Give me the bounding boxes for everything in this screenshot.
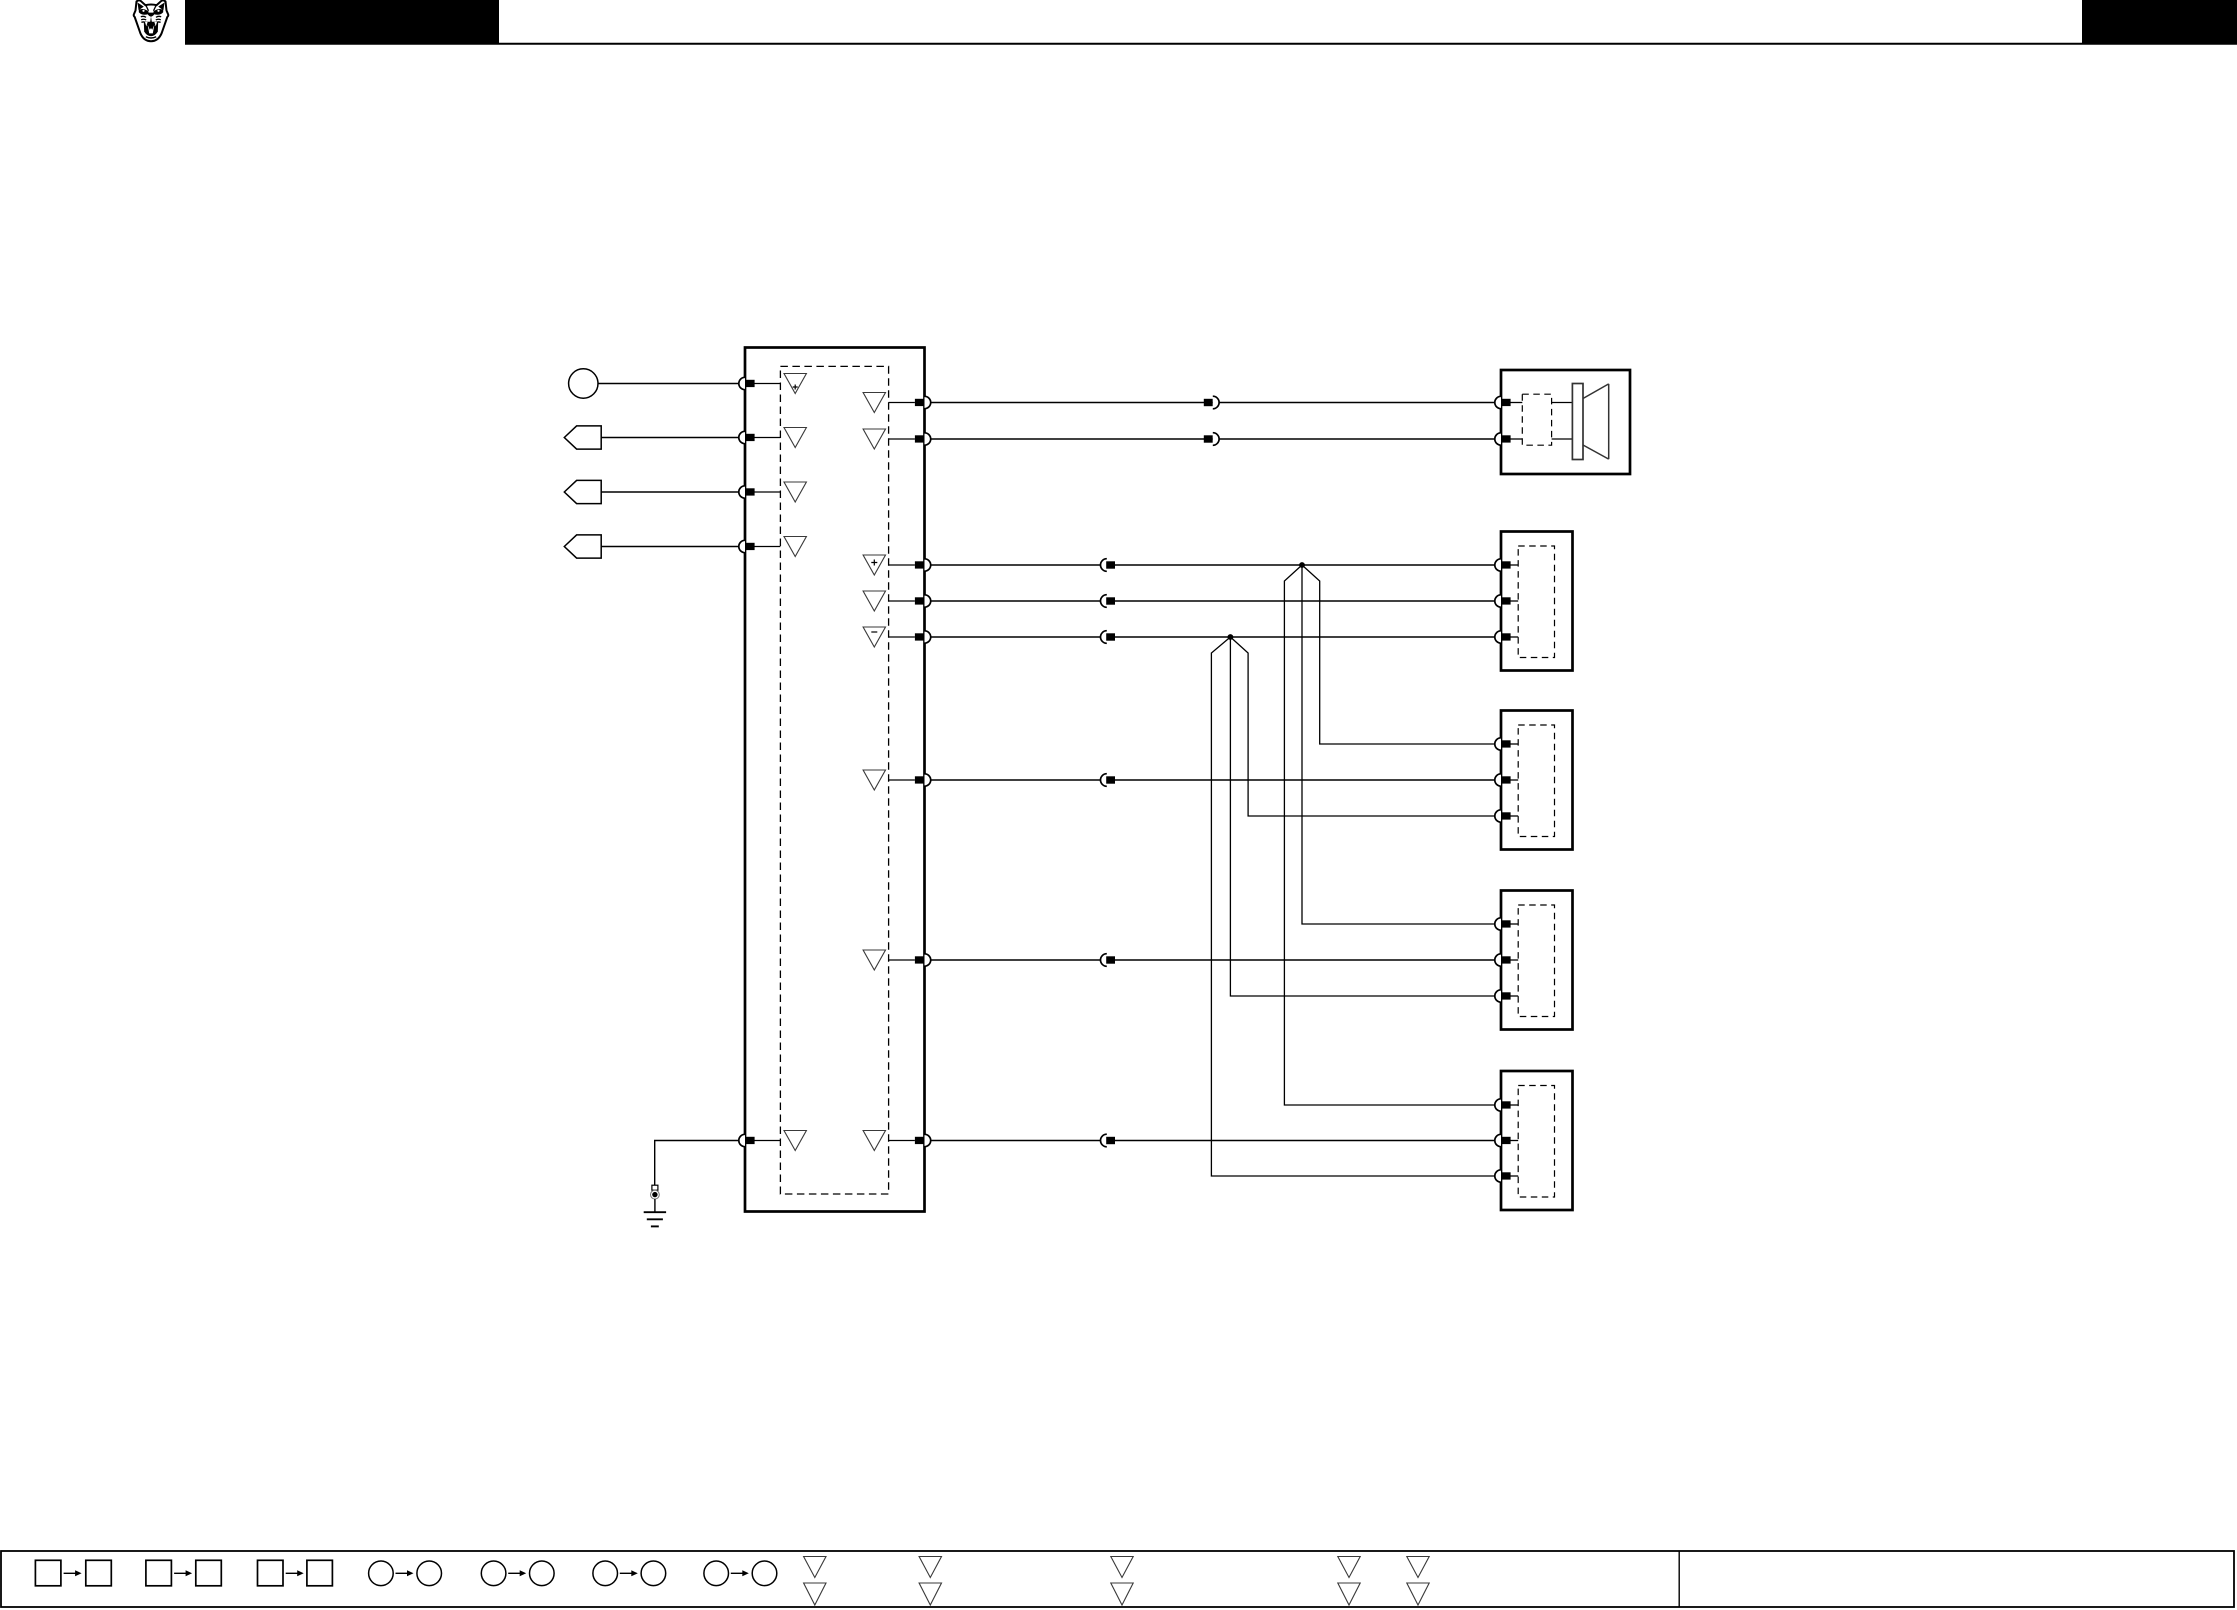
door speaker connector box 3 bbox=[1501, 711, 1573, 850]
wire: input 3 to amp bbox=[601, 491, 739, 493]
ground ring terminal bbox=[651, 1190, 660, 1199]
amplifier module outline bbox=[745, 348, 925, 1212]
in-line connector bbox=[1101, 631, 1116, 644]
wire: input 2 to amp bbox=[601, 437, 739, 439]
wire: out4 bbox=[931, 1140, 1495, 1142]
legend: connector pair 5 (circles) bbox=[481, 1561, 554, 1586]
in-line connector bbox=[1101, 954, 1116, 967]
amp pin (right) out3 bbox=[863, 950, 931, 970]
amp pin (right) speaker - bbox=[863, 429, 931, 449]
box3 dashed connector bbox=[1518, 725, 1554, 837]
pin stub bbox=[755, 1140, 781, 1142]
input eyelet connector (circle) bbox=[569, 369, 598, 398]
door speaker connector box 2 bbox=[1501, 532, 1573, 671]
ground lead bbox=[654, 1199, 656, 1212]
legend: splice pair 5 (triangles) bbox=[1407, 1557, 1429, 1606]
legend divider bbox=[1678, 1551, 1680, 1607]
input lead connector 4 (pentagon) bbox=[564, 535, 601, 558]
box5 pin3 bbox=[1495, 1170, 1518, 1182]
amplifier internal harness (dashed) bbox=[780, 366, 888, 1194]
legend: connector pair 7 (circles) bbox=[704, 1561, 777, 1586]
wire: J1 branch to box3 pin1 bbox=[1302, 565, 1494, 744]
amp pin (right) out4 bbox=[889, 1134, 931, 1146]
junction J1 bbox=[1299, 562, 1305, 568]
speaker internal wires bbox=[1552, 403, 1573, 440]
amp pin (right) out2 bbox=[863, 770, 931, 790]
legend: connector pair 3 (squares) bbox=[258, 1560, 333, 1586]
splice triangle bbox=[784, 537, 806, 557]
box5 dashed connector bbox=[1518, 1086, 1554, 1198]
speaker pin 1 bbox=[1495, 396, 1523, 408]
in-line connector bbox=[1204, 433, 1219, 446]
pin stub bbox=[755, 546, 781, 548]
legend: connector pair 4 (circles) bbox=[369, 1561, 442, 1586]
box2 pin2 bbox=[1495, 595, 1518, 607]
wire: J2 branch to box3 pin3 bbox=[1230, 637, 1494, 816]
legend: splice pair 4 (triangles) bbox=[1338, 1557, 1360, 1606]
box2 dashed connector bbox=[1518, 546, 1554, 658]
pin stub bbox=[755, 437, 781, 439]
pin stub bbox=[755, 491, 781, 493]
wire: speaker - bbox=[931, 438, 1495, 440]
box3 pin2 bbox=[1495, 774, 1518, 786]
wire: out2 bbox=[931, 779, 1495, 781]
legend: connector pair 1 (squares) bbox=[35, 1560, 111, 1586]
legend: connector pair 6 (circles) bbox=[593, 1561, 666, 1586]
wire: out3 bbox=[931, 959, 1495, 961]
amp pin (right) speaker + bbox=[863, 393, 931, 413]
wire: J1 branch to box5 pin1 bbox=[1284, 565, 1494, 1105]
legend: splice pair 3 (triangles) bbox=[1111, 1557, 1133, 1606]
door speaker connector box 4 bbox=[1501, 891, 1573, 1030]
splice triangle bbox=[784, 482, 806, 502]
box4 pin2 bbox=[1495, 954, 1518, 966]
speaker driver bbox=[1572, 384, 1608, 460]
box5 pin2 bbox=[1495, 1134, 1518, 1146]
wire: J1 branch to box4 pin1 bbox=[1302, 565, 1494, 924]
wire: out1 + bbox=[931, 564, 1495, 566]
box5 pin1 bbox=[1495, 1099, 1518, 1111]
junction J2 bbox=[1228, 634, 1234, 640]
ground eyelet square bbox=[652, 1185, 658, 1190]
amp pin (left) row 2 bbox=[739, 431, 755, 443]
box2 pin3 bbox=[1495, 631, 1518, 643]
in-line connector bbox=[1204, 396, 1219, 409]
speaker connector (dashed) bbox=[1522, 394, 1551, 445]
box2 pin1 bbox=[1495, 559, 1518, 571]
amp pin (left) row 4 bbox=[739, 540, 755, 552]
pin stub bbox=[755, 383, 781, 385]
splice triangle bbox=[784, 428, 806, 448]
wire: J2 branch to box4 pin3 bbox=[1230, 637, 1494, 996]
legend: splice pair 2 (triangles) bbox=[919, 1557, 941, 1606]
amp pin (right) out1 - bbox=[863, 627, 931, 647]
legend: connector pair 2 (squares) bbox=[146, 1560, 221, 1586]
splice triangle bbox=[784, 1131, 806, 1151]
amp pin (right) out1 + bbox=[863, 555, 931, 575]
speaker pin 2 bbox=[1495, 433, 1523, 445]
legend: splice pair 1 (triangles) bbox=[804, 1557, 826, 1606]
amp ground pin (left bottom) bbox=[739, 1134, 755, 1146]
wire: input 1 to amp bbox=[598, 383, 739, 385]
header title bar (left, black) bbox=[185, 0, 499, 43]
input lead connector 3 (pentagon) bbox=[564, 480, 601, 503]
legend strip bbox=[1, 1551, 2234, 1607]
box3 pin3 bbox=[1495, 810, 1518, 822]
header rule bbox=[185, 43, 2237, 45]
in-line connector bbox=[1101, 595, 1116, 608]
box4 pin1 bbox=[1495, 918, 1518, 930]
wire: speaker + bbox=[931, 402, 1495, 404]
amp pin (left) row 1 bbox=[739, 377, 755, 389]
speaker unit outline bbox=[1501, 370, 1630, 474]
wire: input 4 to amp bbox=[601, 546, 739, 548]
header page-number bar (right, black) bbox=[2082, 0, 2237, 43]
box4 dashed connector bbox=[1518, 905, 1554, 1017]
in-line connector bbox=[1101, 774, 1116, 787]
in-line connector bbox=[1101, 559, 1116, 572]
wire: out1 - bbox=[931, 636, 1495, 638]
wire: J2 branch to box5 pin3 bbox=[1211, 637, 1494, 1176]
door speaker connector box 5 bbox=[1501, 1071, 1573, 1210]
amp pin (right) out1 bbox=[863, 591, 931, 611]
ground symbol G1 bbox=[644, 1212, 666, 1226]
box4 pin3 bbox=[1495, 990, 1518, 1002]
splice triangle (+) bbox=[784, 374, 806, 394]
box3 pin1 bbox=[1495, 738, 1518, 750]
wire: out1 bbox=[931, 600, 1495, 602]
ground wire bbox=[655, 1141, 739, 1186]
amp pin (left) row 3 bbox=[739, 486, 755, 498]
Jaguar growler logo bbox=[134, 0, 169, 41]
splice triangle (right col, ground row) bbox=[863, 1131, 885, 1151]
in-line connector bbox=[1101, 1134, 1116, 1147]
input lead connector 2 (pentagon) bbox=[564, 426, 601, 449]
